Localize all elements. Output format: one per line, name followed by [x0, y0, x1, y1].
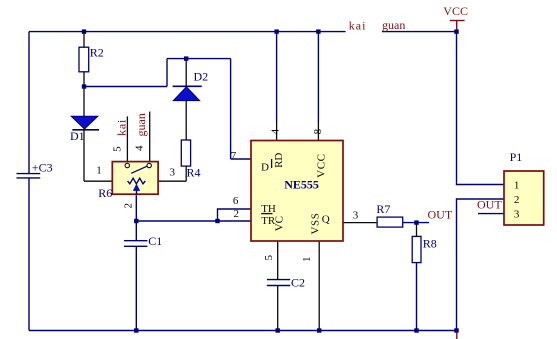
diode D2 — [173, 59, 209, 140]
junction at C1 top — [134, 219, 138, 223]
svg-text:kai: kai — [114, 119, 128, 136]
svg-text:C1: C1 — [148, 234, 162, 248]
wire OUT vertical to P1 pin2 — [457, 199, 505, 331]
svg-text:guan: guan — [134, 113, 148, 136]
wire bottom rail — [29, 330, 457, 332]
svg-text:1: 1 — [301, 257, 313, 263]
wire top rail net kai — [29, 31, 346, 33]
svg-text:7: 7 — [231, 150, 237, 162]
wire drop to pin7 — [230, 59, 232, 159]
svg-text:D2: D2 — [194, 69, 209, 83]
wire pin7 horizontal — [231, 158, 251, 160]
pin 1 lead to bottom rail — [318, 241, 320, 331]
svg-text:D1: D1 — [70, 129, 85, 143]
wire R2 bottom horizontal — [84, 86, 167, 88]
svg-text:2: 2 — [123, 203, 135, 209]
svg-text:5: 5 — [263, 255, 275, 261]
svg-text:kai: kai — [349, 18, 367, 32]
svg-text:R6: R6 — [98, 186, 112, 200]
wire riser to D2 rail — [166, 59, 168, 87]
wire pin4 vertical — [276, 32, 278, 122]
IC NE555 U1 — [231, 128, 359, 262]
junction at R7 R8 — [414, 220, 418, 224]
svg-text:RD: RD — [273, 153, 285, 168]
svg-text:R8: R8 — [423, 237, 437, 251]
svg-text:R7: R7 — [376, 202, 390, 216]
svg-text:2: 2 — [514, 194, 520, 206]
wire left rail lower — [28, 178, 30, 330]
wire net guan top — [382, 31, 457, 33]
junction at R2 top — [82, 29, 86, 33]
junction at C1 bottom — [134, 328, 138, 332]
svg-text:+C3: +C3 — [32, 161, 53, 175]
wire C2 bottom lead — [277, 286, 279, 331]
svg-text:Q: Q — [322, 214, 330, 226]
svg-text:5: 5 — [112, 146, 124, 152]
wire D2 top rail — [167, 58, 231, 60]
svg-text:D: D — [261, 161, 269, 173]
resistor R7 — [376, 202, 402, 227]
wire pin8 vertical — [317, 32, 319, 122]
svg-text:2: 2 — [234, 208, 240, 220]
capacitor C3 — [17, 161, 53, 178]
junction at C2 bottom — [276, 328, 280, 332]
wire pin6 horizontal — [218, 209, 252, 221]
svg-text:C2: C2 — [291, 276, 305, 290]
svg-text:3: 3 — [170, 167, 176, 179]
svg-text:NE555: NE555 — [284, 178, 319, 192]
svg-text:6: 6 — [233, 195, 239, 207]
junction at pin6 drop — [215, 219, 219, 223]
junction at VCC — [454, 29, 458, 33]
wire R6 pin2 stem to C1 — [135, 194, 137, 240]
svg-text:8: 8 — [312, 128, 324, 134]
connector P1 — [504, 150, 544, 225]
svg-text:3: 3 — [514, 209, 520, 221]
svg-text:3: 3 — [353, 210, 359, 222]
junction at pin4 top — [274, 29, 278, 33]
capacitor C2 — [267, 276, 305, 290]
svg-text:guan: guan — [382, 18, 405, 32]
wire VCC vertical to P1 pin1 — [457, 32, 505, 185]
svg-text:VCC: VCC — [316, 153, 328, 177]
junction at D2 top — [184, 56, 188, 60]
junction at R2 bottom — [82, 84, 86, 88]
svg-text:4: 4 — [270, 128, 282, 134]
pin 5 lead with C2 top — [277, 241, 279, 280]
wire left rail upper — [28, 32, 30, 174]
resistor R8 — [412, 236, 437, 262]
resistor R2 — [79, 32, 104, 87]
pin 8 stub — [317, 122, 319, 141]
pin name TR (pin 2) with overline — [261, 213, 272, 215]
svg-text:VCC: VCC — [443, 4, 468, 18]
junction at rail corner — [454, 328, 458, 332]
junction at pin1 bottom — [317, 328, 321, 332]
svg-text:1: 1 — [514, 179, 520, 191]
svg-text:VC: VC — [274, 216, 286, 231]
power VCC symbol — [443, 4, 468, 32]
wire pin2 horizontal — [136, 220, 251, 222]
svg-text:R2: R2 — [90, 46, 104, 60]
svg-text:R4: R4 — [187, 165, 201, 179]
capacitor C1 — [124, 234, 162, 248]
pin 4 stub — [276, 122, 278, 141]
junction at pin8 top — [316, 29, 320, 33]
svg-text:4: 4 — [134, 145, 146, 151]
svg-text:VSS: VSS — [310, 213, 322, 235]
port stub bottom right — [456, 333, 458, 339]
wire R8 bottom lead — [416, 263, 418, 331]
junction at R8 bottom — [414, 328, 418, 332]
svg-text:P1: P1 — [510, 150, 523, 164]
svg-text:OUT: OUT — [477, 198, 502, 212]
resistor R4 — [158, 140, 200, 181]
wire C1 bottom lead — [135, 246, 137, 330]
wire R8 top lead — [416, 223, 418, 237]
svg-text:OUT: OUT — [428, 208, 453, 222]
pin 3 lead to R7 — [343, 222, 377, 224]
potentiometer with switch R6 — [96, 112, 175, 209]
wire P1 pin3 stub — [478, 213, 504, 215]
wire R7 to OUT stub — [403, 222, 429, 224]
diode D1 — [70, 87, 112, 182]
svg-text:1: 1 — [96, 165, 102, 177]
